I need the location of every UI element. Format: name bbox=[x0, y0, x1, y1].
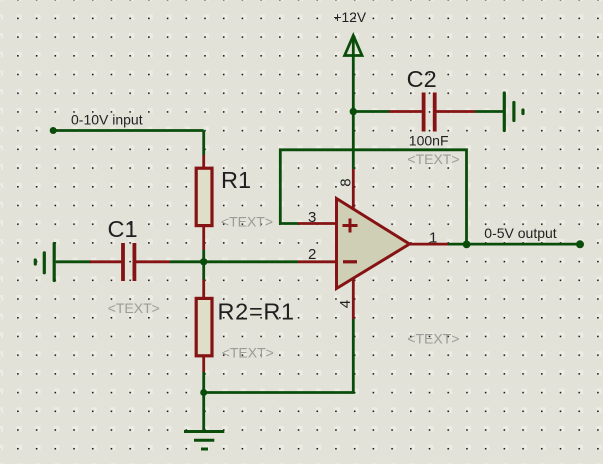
op-amp pin 3 bbox=[298, 222, 337, 225]
op-amp minus marker bbox=[343, 260, 357, 263]
ground symbol (bottom) bbox=[184, 393, 224, 450]
output endpoint node bbox=[576, 240, 584, 248]
resistor R2 bbox=[196, 280, 212, 373]
wire C1 left bbox=[56, 260, 91, 263]
op-amp U1 triangle body bbox=[337, 199, 410, 289]
svg-text:+12V: +12V bbox=[334, 10, 367, 25]
junction node output/feedback bbox=[463, 241, 471, 249]
junction node R2/ground bbox=[200, 389, 207, 396]
ground terminal (left, pointing left) at C1 bbox=[35, 244, 54, 281]
input endpoint node bbox=[50, 127, 57, 134]
svg-text:100nF: 100nF bbox=[409, 132, 449, 148]
svg-text:2: 2 bbox=[308, 246, 316, 263]
wire input vertical to R1 bbox=[202, 131, 205, 156]
op-amp plus marker bbox=[343, 219, 358, 233]
svg-text:R1: R1 bbox=[221, 167, 251, 193]
ground terminal (right, pointing right) bbox=[504, 93, 523, 131]
svg-text:4: 4 bbox=[337, 300, 354, 308]
svg-text:<TEXT>: <TEXT> bbox=[407, 331, 459, 347]
wire +12V junction to C2 bbox=[353, 110, 390, 113]
wire ground junction to op-amp pin 4 bbox=[204, 319, 354, 393]
svg-text:3: 3 bbox=[308, 209, 316, 226]
op-amp pin 1 output bbox=[410, 243, 449, 246]
resistor R1 bbox=[196, 155, 212, 250]
wire +12V rail down to op-amp pin 8 bbox=[352, 56, 355, 170]
svg-text:<TEXT>: <TEXT> bbox=[222, 344, 274, 360]
wire C1 to op-amp pin 2 bbox=[170, 260, 298, 263]
svg-text:0-10V input: 0-10V input bbox=[71, 112, 143, 128]
svg-text:<TEXT>: <TEXT> bbox=[108, 300, 160, 316]
op-amp pin 8 bbox=[352, 169, 355, 209]
op-amp pin 2 bbox=[298, 260, 337, 263]
wire input horizontal bbox=[53, 129, 204, 132]
svg-text:C2: C2 bbox=[407, 66, 437, 92]
wire C2 to right ground bbox=[475, 110, 503, 113]
junction node C1/R1/R2 bbox=[200, 258, 207, 265]
svg-text:<TEXT>: <TEXT> bbox=[407, 151, 459, 167]
wire R1 bottom to junction and on to R2 bbox=[202, 250, 205, 280]
wire output bbox=[448, 243, 580, 246]
svg-text:0-5V output: 0-5V output bbox=[484, 225, 556, 241]
svg-text:R2=R1: R2=R1 bbox=[218, 298, 295, 324]
power symbol +12V arrow bbox=[345, 36, 362, 56]
svg-text:<TEXT>: <TEXT> bbox=[221, 213, 273, 229]
svg-text:8: 8 bbox=[337, 178, 354, 186]
feedback wire from pin 3 up over to output bbox=[280, 150, 466, 244]
op-amp pin 4 bbox=[352, 279, 355, 320]
junction node +12V/C2 bbox=[350, 108, 357, 115]
capacitor C1 bbox=[90, 243, 170, 281]
wire R2 to ground junction bbox=[202, 372, 205, 393]
svg-text:C1: C1 bbox=[108, 216, 138, 242]
capacitor C2 bbox=[389, 93, 475, 132]
